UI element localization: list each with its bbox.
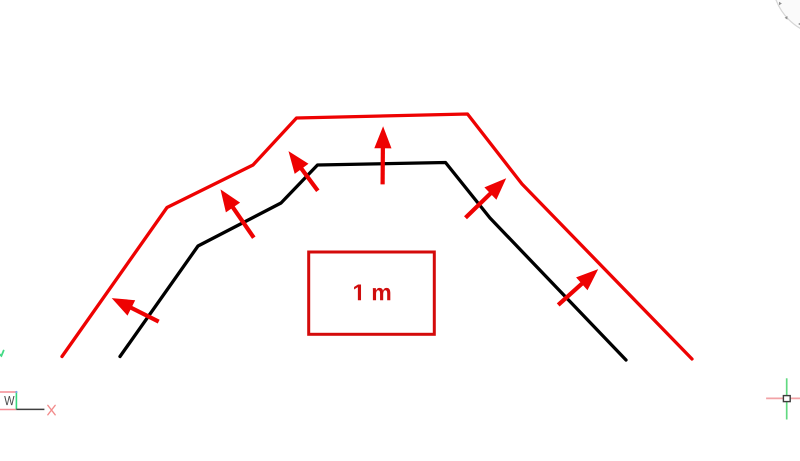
offset arrow A6 (lower-right) bbox=[576, 269, 598, 290]
scale label text "1 m" bbox=[354, 284, 390, 300]
offset arrow A1 (lower-left) bbox=[112, 298, 136, 316]
UCS box bottom edge bbox=[0, 409, 16, 411]
offset arrow A2 bbox=[221, 189, 241, 212]
UCS icon (bottom-left) bbox=[0, 351, 55, 415]
offset arrow A5 (upper-right) bbox=[484, 178, 506, 200]
UCS box right edge (green) bbox=[15, 392, 17, 410]
scale label rectangle bbox=[309, 252, 435, 334]
offset arrow A3 bbox=[289, 151, 309, 174]
UCS Z dot (blue) bbox=[15, 391, 17, 393]
offset arrow A4 (vertical, top) bbox=[374, 126, 391, 148]
UCS box top edge bbox=[0, 391, 16, 393]
black source polyline bbox=[120, 163, 626, 361]
viewcube compass arc (top-right) bbox=[772, 0, 800, 36]
red offset polyline bbox=[62, 114, 692, 359]
UCS X-axis line bbox=[16, 408, 44, 410]
UCS X label bbox=[48, 405, 55, 415]
crosshair horizontal (pink) bbox=[766, 397, 800, 399]
UCS W label bbox=[4, 396, 14, 405]
crosshair cursor (bottom-right) bbox=[766, 378, 800, 419]
pickbox bbox=[783, 396, 790, 402]
crosshair vertical (green) bbox=[786, 378, 788, 419]
UCS Y-axis glyph fragment bbox=[0, 351, 4, 356]
